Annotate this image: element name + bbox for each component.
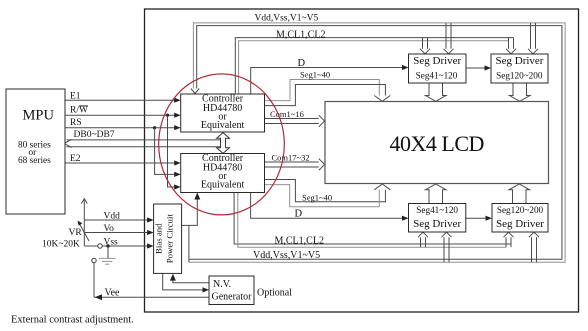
svg-text:68 series: 68 series: [18, 156, 51, 166]
svg-text:Seg Driver: Seg Driver: [496, 218, 544, 230]
svg-text:E2: E2: [70, 154, 81, 164]
svg-text:R/W: R/W: [70, 106, 88, 116]
svg-text:N.V.: N.V.: [213, 279, 231, 290]
svg-text:Vdd: Vdd: [104, 212, 121, 222]
svg-text:E1: E1: [70, 92, 81, 102]
svg-text:Bias and: Bias and: [154, 223, 164, 254]
svg-text:Equivalent: Equivalent: [201, 179, 245, 190]
svg-text:External contrast adjustment.: External contrast adjustment.: [11, 315, 134, 326]
svg-text:Vdd,Vss,V1~V5: Vdd,Vss,V1~V5: [255, 14, 319, 24]
svg-text:D: D: [298, 58, 306, 69]
svg-text:D: D: [295, 209, 303, 220]
svg-text:10K~20K: 10K~20K: [42, 239, 80, 249]
svg-text:MPU: MPU: [23, 108, 55, 124]
svg-text:VR: VR: [69, 228, 83, 238]
svg-text:Seg41~120: Seg41~120: [416, 205, 458, 215]
svg-text:40X4 LCD: 40X4 LCD: [390, 131, 484, 156]
svg-text:M,CL1,CL2: M,CL1,CL2: [276, 29, 325, 40]
svg-text:Seg Driver: Seg Driver: [413, 55, 461, 67]
svg-text:RS: RS: [70, 118, 82, 128]
svg-text:Vss: Vss: [104, 238, 119, 248]
svg-text:Com17~32: Com17~32: [272, 152, 310, 162]
svg-text:Equivalent: Equivalent: [201, 120, 245, 131]
svg-text:Seg1~40: Seg1~40: [302, 192, 332, 202]
svg-text:Vee: Vee: [105, 288, 121, 299]
svg-text:Com1~16: Com1~16: [270, 109, 304, 119]
svg-text:Seg1~40: Seg1~40: [300, 70, 330, 80]
svg-text:Seg Driver: Seg Driver: [413, 218, 461, 230]
svg-text:Optional: Optional: [257, 288, 292, 299]
svg-text:DB0~DB7: DB0~DB7: [74, 130, 115, 140]
svg-text:Vo: Vo: [104, 224, 115, 234]
svg-text:Seg120~200: Seg120~200: [497, 205, 544, 215]
svg-text:Power Circuit: Power Circuit: [165, 214, 175, 264]
svg-text:Generator: Generator: [212, 292, 253, 303]
svg-text:Vdd,Vss,V1~V5: Vdd,Vss,V1~V5: [253, 250, 320, 261]
svg-text:Seg Driver: Seg Driver: [496, 55, 544, 67]
svg-text:Seg120~200: Seg120~200: [496, 71, 543, 81]
svg-text:M,CL1,CL2: M,CL1,CL2: [275, 235, 324, 246]
svg-text:Seg41~120: Seg41~120: [416, 71, 458, 81]
